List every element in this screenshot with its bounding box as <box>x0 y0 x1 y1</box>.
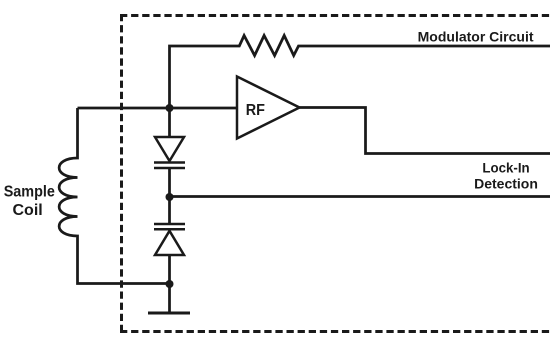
svg-text:Detection: Detection <box>474 175 538 191</box>
svg-text:RF: RF <box>246 101 265 119</box>
svg-text:Coil: Coil <box>12 202 42 219</box>
svg-text:Modulator Circuit: Modulator Circuit <box>418 29 534 45</box>
svg-text:Lock-In: Lock-In <box>482 160 529 175</box>
svg-text:Sample: Sample <box>4 183 55 201</box>
